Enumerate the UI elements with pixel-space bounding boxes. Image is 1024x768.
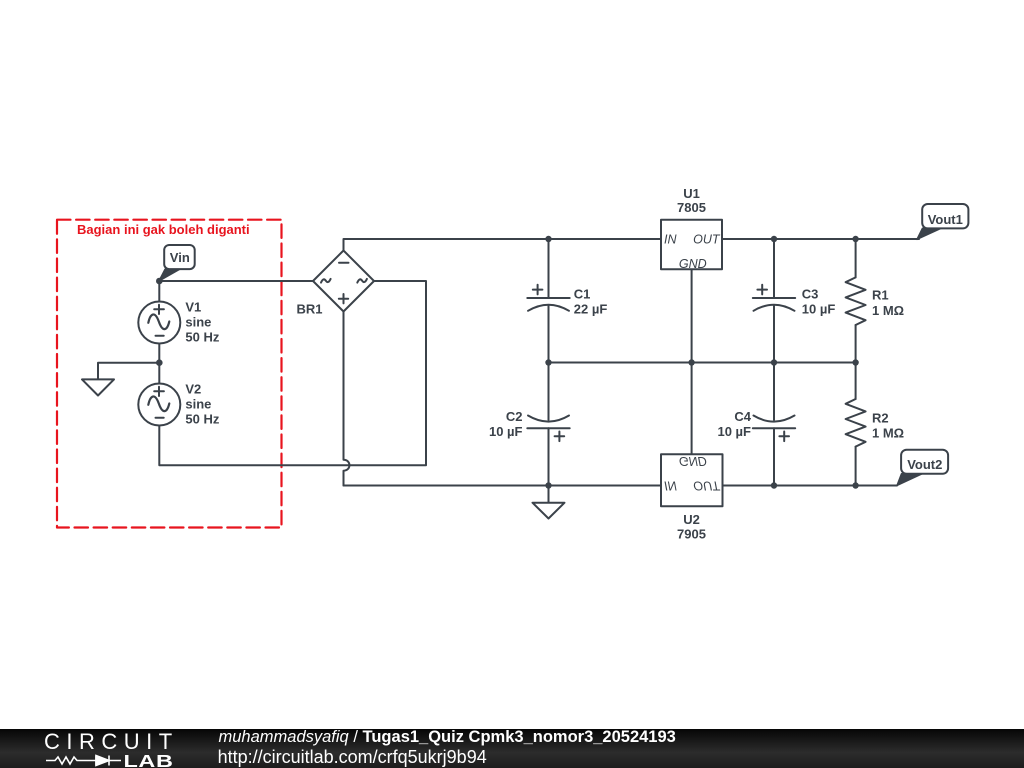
svg-text:sine: sine — [185, 397, 211, 412]
BR1 plus mark — [339, 294, 348, 303]
svg-text:10 µF: 10 µF — [717, 424, 751, 439]
svg-text:7905: 7905 — [677, 527, 706, 542]
bridge rectifier BR1 diamond — [313, 251, 374, 312]
junction: V1-V2 midpoint / ground — [156, 359, 163, 366]
svg-text:GND: GND — [679, 454, 707, 468]
svg-text:BR1: BR1 — [297, 302, 323, 317]
wire: mid ground rail — [549, 362, 856, 364]
CircuitLab logo — [0, 729, 200, 768]
svg-text:7805: 7805 — [677, 200, 706, 215]
svg-text:C2: C2 — [506, 409, 523, 424]
svg-text:IN: IN — [664, 478, 677, 492]
capacitor C1 plates — [527, 298, 569, 311]
svg-text:R1: R1 — [872, 288, 889, 303]
junction: bottom rail C4 — [771, 482, 777, 488]
junction: mid rail C3/C4 — [771, 359, 777, 365]
ground (left, at V1/V2 midpoint) — [82, 363, 159, 396]
svg-text:Vout1: Vout1 — [928, 212, 963, 227]
resistor R2 zigzag — [846, 399, 866, 447]
svg-text:http://circuitlab.com/crfq5ukr: http://circuitlab.com/crfq5ukrj9b94 — [218, 747, 487, 767]
capacitor C3 plates — [753, 298, 795, 311]
svg-text:V1: V1 — [185, 300, 201, 315]
C3 polarity plus — [757, 285, 767, 295]
wire: C2 leads — [548, 363, 550, 486]
junction: top rail R1 — [852, 236, 858, 242]
regulator U1 7805 box — [661, 220, 722, 270]
C1 polarity plus — [533, 285, 543, 295]
svg-text:OUT: OUT — [693, 233, 721, 247]
wire: V1 bottom to V2 top — [158, 344, 160, 384]
junction: bottom rail C2/ground — [545, 482, 551, 488]
wire: V2 bottom to BR1 right AC pin — [159, 281, 426, 465]
svg-text:1 MΩ: 1 MΩ — [872, 426, 904, 441]
svg-text:22 µF: 22 µF — [574, 302, 608, 317]
net flag Vin — [159, 245, 195, 281]
C4 polarity plus — [779, 432, 789, 442]
svg-text:10 µF: 10 µF — [802, 302, 836, 317]
capacitor C2 plates — [527, 416, 569, 429]
junction: Vin node — [156, 278, 163, 285]
BR1 minus mark — [339, 262, 349, 264]
net flag Vout1 — [917, 204, 968, 239]
red dashed annotation box — [57, 220, 282, 528]
wire: C3 leads — [773, 239, 775, 363]
svg-text:CIRCUIT: CIRCUIT — [44, 729, 179, 754]
net flag Vout2 — [897, 450, 948, 486]
wire: bottom ground rail (BR1 + to Vout2) — [344, 485, 898, 487]
C2 polarity plus — [555, 432, 565, 442]
svg-text:LAB: LAB — [124, 751, 174, 768]
svg-text:IN: IN — [664, 233, 677, 247]
V2 sine squiggle — [148, 396, 169, 411]
svg-text:muhammadsyafiq / Tugas1_Quiz C: muhammadsyafiq / Tugas1_Quiz Cpmk3_nomor… — [219, 729, 676, 746]
svg-text:OUT: OUT — [693, 478, 721, 492]
svg-text:C4: C4 — [734, 409, 751, 424]
svg-text:1 MΩ: 1 MΩ — [872, 303, 904, 318]
svg-text:50 Hz: 50 Hz — [185, 330, 219, 345]
svg-text:50 Hz: 50 Hz — [185, 412, 219, 427]
wire: R2 leads — [855, 363, 857, 486]
voltage source V2 circle — [138, 384, 180, 426]
wire: Vin node to BR1 left AC pin — [159, 280, 313, 282]
junction: top rail C1 — [545, 236, 551, 242]
V1 plus mark — [154, 305, 164, 314]
BR1 AC tilde left — [321, 279, 331, 283]
wire: U1 GND pin to U2 GND pin across ground rail — [691, 269, 693, 454]
junction: top rail C3 — [771, 236, 777, 242]
ground (bottom center) — [533, 486, 565, 519]
junction: mid rail C1/C2 — [545, 359, 551, 365]
svg-text:C3: C3 — [802, 287, 819, 302]
svg-text:GND: GND — [679, 257, 707, 271]
V2 minus mark — [156, 417, 164, 419]
wire: BR1 + output down to ground rail, hopping over V2 wire — [344, 312, 350, 486]
wire: C4 leads — [773, 363, 775, 486]
V1 sine squiggle — [148, 314, 169, 329]
svg-text:V2: V2 — [185, 382, 201, 397]
svg-text:Bagian ini gak boleh diganti: Bagian ini gak boleh diganti — [77, 222, 250, 237]
svg-text:C1: C1 — [574, 287, 591, 302]
wire: V1 top lead — [158, 281, 160, 302]
svg-text:R2: R2 — [872, 411, 889, 426]
BR1 AC tilde right — [357, 279, 367, 283]
V2 plus mark — [154, 387, 164, 396]
wire: C1 leads — [548, 239, 550, 363]
svg-text:sine: sine — [185, 315, 211, 330]
capacitor C4 plates — [753, 416, 795, 429]
junction: mid rail U GND — [688, 359, 694, 365]
voltage source V1 circle — [138, 302, 180, 344]
wire: top rail BR1 - output to Vout1 — [344, 239, 920, 251]
svg-text:10 µF: 10 µF — [489, 424, 523, 439]
V1 minus mark — [156, 335, 164, 337]
wire: R1 leads — [855, 239, 857, 363]
resistor R1 zigzag — [846, 277, 866, 325]
junction: bottom rail R2 — [852, 482, 858, 488]
svg-text:Vin: Vin — [170, 250, 190, 265]
svg-text:Vout2: Vout2 — [907, 457, 942, 472]
svg-text:U1: U1 — [683, 186, 700, 201]
regulator U2 7905 box — [661, 454, 723, 506]
svg-text:U2: U2 — [683, 512, 700, 527]
junction: mid rail R1/R2 — [852, 359, 858, 365]
